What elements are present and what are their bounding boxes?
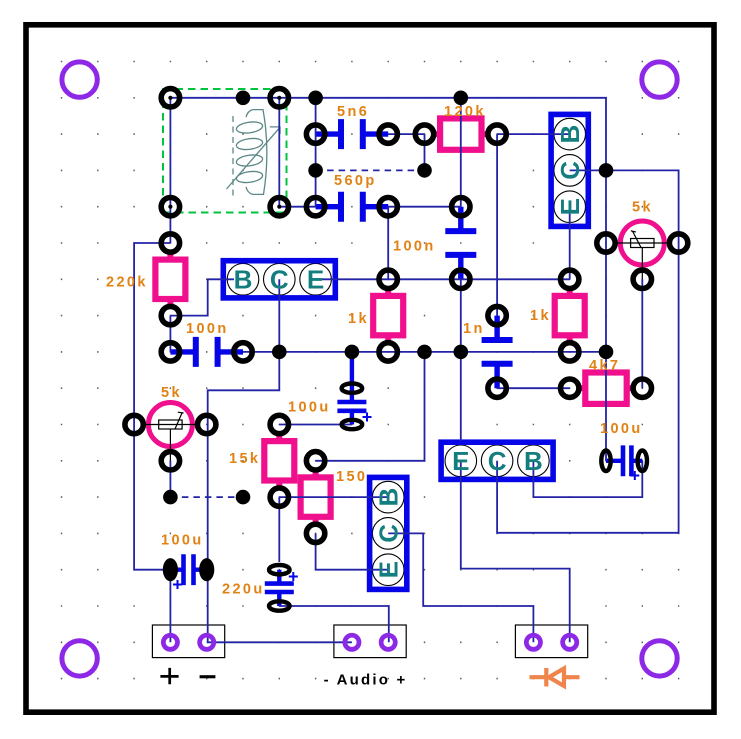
svg-text:220k: 220k xyxy=(106,275,148,291)
svg-text:- Audio +: - Audio + xyxy=(324,672,408,689)
svg-text:150: 150 xyxy=(336,469,367,485)
svg-text:B: B xyxy=(374,488,404,507)
svg-text:100n: 100n xyxy=(393,239,436,255)
svg-text:5k: 5k xyxy=(632,200,653,216)
svg-text:100u: 100u xyxy=(288,400,331,416)
svg-text:1n: 1n xyxy=(463,321,485,337)
svg-text:E: E xyxy=(452,446,469,476)
svg-text:E: E xyxy=(307,265,324,295)
svg-text:120k: 120k xyxy=(444,104,486,120)
svg-text:E: E xyxy=(374,561,404,578)
svg-text:220u: 220u xyxy=(222,582,265,598)
svg-text:C: C xyxy=(374,524,404,543)
svg-text:100u: 100u xyxy=(161,533,204,549)
svg-text:100n: 100n xyxy=(186,321,229,337)
svg-text:B: B xyxy=(555,125,585,144)
svg-text:5k: 5k xyxy=(161,385,182,401)
svg-text:4k7: 4k7 xyxy=(589,358,620,374)
svg-text:E: E xyxy=(555,198,585,215)
svg-text:1k: 1k xyxy=(530,308,551,324)
svg-text:1k: 1k xyxy=(348,311,369,327)
svg-text:100u: 100u xyxy=(600,421,643,437)
svg-text:560p: 560p xyxy=(334,173,377,189)
svg-text:B: B xyxy=(524,446,543,476)
svg-text:5n6: 5n6 xyxy=(337,104,369,120)
svg-text:B: B xyxy=(234,265,253,295)
svg-text:15k: 15k xyxy=(229,451,260,467)
svg-text:C: C xyxy=(488,446,507,476)
svg-text:C: C xyxy=(555,161,585,180)
svg-text:C: C xyxy=(270,265,289,295)
